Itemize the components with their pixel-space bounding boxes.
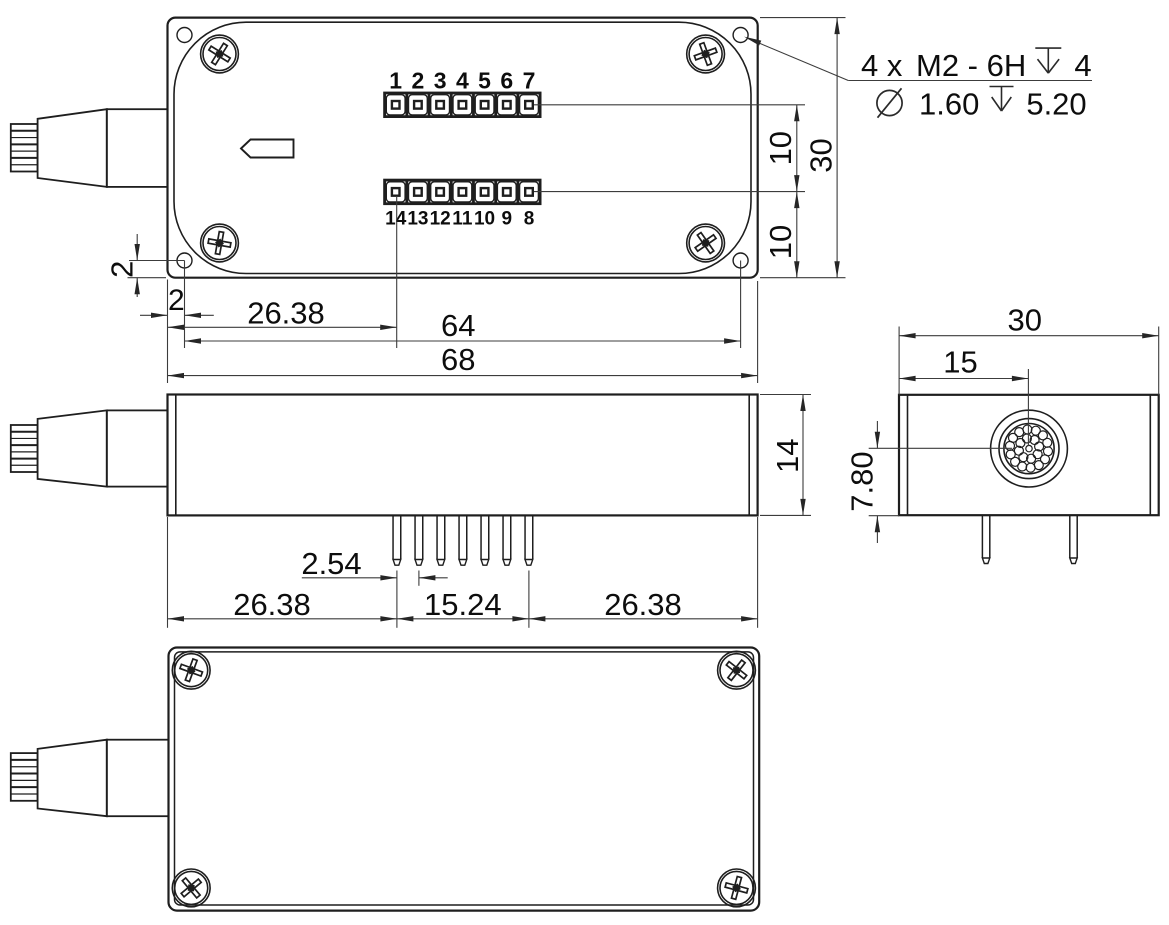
dimension 64 xyxy=(185,340,741,342)
svg-text:12: 12 xyxy=(430,209,451,230)
dimension 26.38 (right) xyxy=(529,618,758,620)
end view: right cap line xyxy=(1149,395,1151,515)
svg-text:30: 30 xyxy=(803,138,838,172)
svg-text:10: 10 xyxy=(474,209,495,230)
extension lines pin rows to right xyxy=(534,104,805,106)
dimension 30 (top view height) xyxy=(836,18,838,278)
bottom view: screw top-left xyxy=(172,651,210,689)
dimension 26.38 (top view) xyxy=(168,326,397,328)
svg-text:11: 11 xyxy=(452,209,473,230)
svg-text:2.54: 2.54 xyxy=(301,546,361,581)
end view: fiber receptacle circles xyxy=(991,410,1068,487)
svg-text:68: 68 xyxy=(441,342,475,377)
end view: package body xyxy=(899,395,1159,515)
fiber boot knurled section xyxy=(11,124,38,172)
extension line right hole xyxy=(740,261,742,349)
top view: orientation arrow marker xyxy=(241,140,294,158)
svg-text:10: 10 xyxy=(763,131,798,165)
svg-text:26.38: 26.38 xyxy=(233,587,311,622)
svg-text:7: 7 xyxy=(523,68,536,94)
svg-text:3: 3 xyxy=(434,68,447,94)
leader line to tapped hole xyxy=(748,38,849,80)
svg-text:13: 13 xyxy=(407,209,428,230)
dimension 68 xyxy=(168,375,758,377)
svg-text:30: 30 xyxy=(1008,303,1042,338)
svg-text:6: 6 xyxy=(500,68,513,94)
dimension 30 (end view) xyxy=(898,327,900,395)
svg-text:4: 4 xyxy=(456,68,469,94)
extension line from pin 1 of row 2 xyxy=(396,196,398,348)
svg-text:15.24: 15.24 xyxy=(424,587,502,622)
svg-text:1.60: 1.60 xyxy=(919,87,979,122)
end view: left lead pin xyxy=(981,515,983,558)
fiber boot taper xyxy=(38,109,107,187)
side view: 7 through-pins xyxy=(393,515,401,565)
dimension 7.80 xyxy=(869,447,1012,449)
side view: left end cap line xyxy=(175,395,177,516)
bottom view: screw top-right xyxy=(718,651,756,689)
dimension 2 (vertical, hole to edge) xyxy=(136,234,138,261)
svg-text:1: 1 xyxy=(389,68,402,94)
end view: left cap line xyxy=(907,395,909,515)
svg-text:14: 14 xyxy=(770,439,805,473)
svg-text:7.80: 7.80 xyxy=(845,451,880,511)
svg-text:2: 2 xyxy=(168,284,185,317)
svg-text:4: 4 xyxy=(1074,48,1091,83)
fiber boot knurled section xyxy=(11,425,38,472)
dimension 10 (lower) xyxy=(796,192,798,278)
extension line right edge xyxy=(757,281,759,383)
end view: fiber bundle pattern xyxy=(1044,447,1053,456)
svg-text:M2 - 6H: M2 - 6H xyxy=(916,48,1026,83)
dimension 26.38 (left) xyxy=(168,618,397,620)
svg-text:5: 5 xyxy=(478,68,491,94)
svg-text:64: 64 xyxy=(441,308,475,343)
top view: screw bottom-left xyxy=(201,224,239,262)
top view: pin header row 1 xyxy=(385,93,540,117)
fiber snout cylinder xyxy=(107,410,168,486)
fiber boot taper xyxy=(38,410,107,486)
top view: screw bottom-right xyxy=(687,224,725,262)
dimension 15 xyxy=(1027,369,1029,446)
fiber snout cylinder xyxy=(107,740,169,817)
end view: right lead pin xyxy=(1069,515,1071,558)
svg-text:4 x: 4 x xyxy=(861,48,903,83)
svg-text:5.20: 5.20 xyxy=(1026,87,1086,122)
svg-text:8: 8 xyxy=(524,209,535,230)
fiber boot taper xyxy=(38,740,107,817)
bottom view: screw bottom-right xyxy=(718,869,756,907)
bottom view: base plate inner outline xyxy=(175,652,754,905)
dimension 15.24 xyxy=(397,618,529,620)
side view: right end cap line xyxy=(748,395,750,516)
bottom view: screw bottom-left xyxy=(172,869,210,907)
top view: screw top-left xyxy=(201,35,239,73)
extension lines below pins xyxy=(396,571,398,628)
svg-text:15: 15 xyxy=(943,345,977,380)
svg-text:14: 14 xyxy=(385,209,407,230)
svg-text:9: 9 xyxy=(501,209,512,230)
top view: package outer body xyxy=(168,18,758,278)
svg-text:2: 2 xyxy=(105,261,140,278)
bottom view: package outer body xyxy=(169,648,760,911)
top view: screw top-right xyxy=(687,35,725,73)
dimension 2 (horizontal, edge to hole) xyxy=(140,314,168,316)
svg-text:26.38: 26.38 xyxy=(247,296,325,331)
callout line 2: diameter symbol xyxy=(877,90,902,115)
fiber snout cylinder xyxy=(107,109,168,187)
top view: lid (inner rounded plate) xyxy=(174,22,751,273)
top view: 4x M2 corner holes xyxy=(177,28,192,43)
dimension 14 (side height) xyxy=(760,394,811,396)
extension lines for 2mm dims at bottom-left hole xyxy=(129,260,185,262)
svg-text:10: 10 xyxy=(763,225,798,259)
top view: pin header row 2 xyxy=(385,180,540,204)
svg-text:26.38: 26.38 xyxy=(604,587,682,622)
fiber boot knurled section xyxy=(11,753,38,801)
svg-text:2: 2 xyxy=(412,68,425,94)
dimension 2.54 xyxy=(302,577,397,579)
side view: package body xyxy=(168,395,758,516)
dimension 10 (upper) xyxy=(796,105,798,192)
